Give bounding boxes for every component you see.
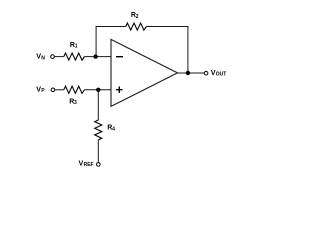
- wire R3 to non-inverting input: [85, 89, 112, 91]
- terminal VOUT: [204, 71, 208, 75]
- non-inverting input marker (+): [116, 87, 122, 93]
- wire VP to R3: [55, 89, 64, 91]
- wire R2 to right corner: [146, 26, 188, 28]
- node VOUT junction dot: [186, 71, 190, 75]
- svg-text:1: 1: [75, 44, 78, 50]
- wire node B down to R4: [97, 90, 99, 120]
- wire R1 to inverting input: [85, 56, 112, 58]
- svg-text:2: 2: [136, 14, 139, 20]
- wire R4 to VREF: [97, 140, 99, 163]
- terminal VN: [51, 55, 55, 59]
- wire top left to R2: [96, 26, 126, 28]
- wire op-amp output: [178, 72, 205, 74]
- svg-text:N: N: [41, 55, 45, 61]
- resistor R3: [64, 86, 85, 93]
- svg-text:3: 3: [74, 100, 77, 106]
- resistor R4: [95, 120, 102, 140]
- terminal VP: [51, 88, 55, 92]
- resistor R2: [126, 23, 147, 30]
- wire feedback left vertical: [95, 27, 97, 57]
- svg-text:4: 4: [112, 126, 115, 132]
- svg-text:OUT: OUT: [216, 72, 227, 78]
- svg-text:REF: REF: [84, 162, 94, 168]
- node A junction dot (inverting input): [93, 54, 97, 58]
- inverting input marker (-): [116, 56, 123, 58]
- terminal VREF: [97, 163, 101, 167]
- resistor R1: [64, 53, 85, 60]
- wire VN to R1: [54, 56, 63, 58]
- wire feedback right vertical: [187, 26, 189, 73]
- op-amp U1: [111, 39, 178, 106]
- node B junction dot (non-inverting input): [96, 88, 100, 92]
